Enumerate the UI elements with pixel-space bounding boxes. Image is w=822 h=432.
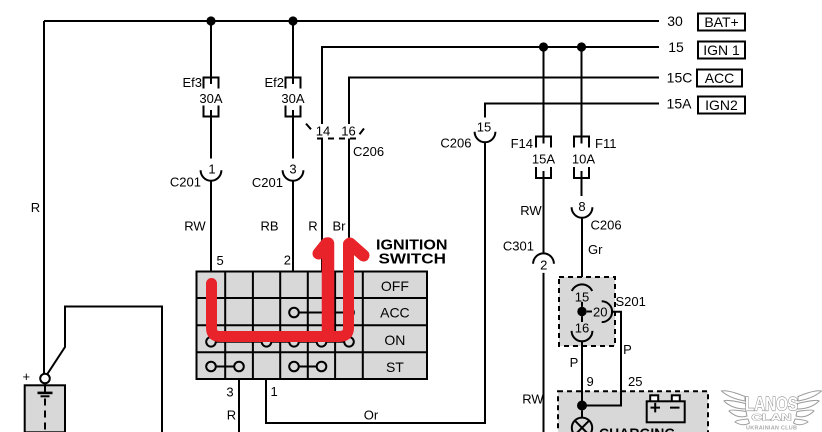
- wire F11 feed: [581, 47, 583, 144]
- svg-text:20: 20: [593, 305, 607, 320]
- svg-text:30A: 30A: [281, 91, 304, 106]
- contact ON col5: [317, 337, 327, 347]
- contact line ST row col1-col2: [211, 366, 239, 368]
- wire pin16 down to charging node (P): [581, 342, 583, 406]
- red arrow shaft 1: [322, 244, 335, 335]
- svg-text:15: 15: [668, 39, 684, 55]
- svg-text:15C: 15C: [667, 70, 693, 86]
- svg-text:RW: RW: [522, 392, 544, 407]
- svg-text:30A: 30A: [199, 91, 222, 106]
- wire switch pin 3 (R) down: [238, 380, 240, 432]
- contact ON col6: [344, 337, 354, 347]
- svg-text:5: 5: [217, 253, 224, 268]
- wire node to pin16: [581, 316, 583, 322]
- node S201 junction: [577, 307, 586, 316]
- wire C201-3 to switch pin 2 (RB): [292, 181, 294, 271]
- wire bus 15C ACC: [349, 78, 659, 125]
- fuse Ef2 30A: [286, 78, 301, 89]
- svg-text:IGN 1: IGN 1: [703, 42, 740, 58]
- svg-text:ACC: ACC: [380, 305, 410, 321]
- connector S201 pin 20: [587, 311, 592, 313]
- contact ACC col6: [344, 308, 354, 318]
- svg-text:BAT+: BAT+: [704, 14, 738, 30]
- svg-text:Gr: Gr: [588, 242, 603, 257]
- svg-text:2: 2: [284, 253, 291, 268]
- svg-text:15: 15: [477, 120, 491, 135]
- switch diagonal wire to alternator: [47, 307, 162, 432]
- svg-text:RB: RB: [260, 219, 278, 234]
- wire Ef3 feed: [210, 21, 212, 84]
- wire bus 15 IGN1: [322, 47, 659, 124]
- wire C206-15 down, Or wire to switch pin 1: [266, 143, 485, 423]
- svg-text:ST: ST: [386, 359, 404, 375]
- svg-text:+: +: [23, 369, 31, 384]
- connector C206 pins 14 16: [306, 124, 311, 130]
- red arrow head 1 barb: [319, 244, 327, 254]
- svg-text:1: 1: [208, 162, 215, 177]
- contact line ST row col4-col5: [294, 366, 322, 368]
- terminal box IGN2: [698, 97, 745, 114]
- wire Gr to S201: [581, 218, 583, 284]
- svg-text:Ef2: Ef2: [264, 75, 284, 90]
- wire C301-2 down: [543, 273, 545, 432]
- contact line ON row: [211, 341, 349, 343]
- svg-text:CLAN: CLAN: [752, 413, 792, 423]
- svg-text:ACC: ACC: [705, 70, 735, 86]
- wire R main left (battery feed): [43, 21, 45, 374]
- svg-text:C206: C206: [591, 218, 622, 233]
- wire Ef2 feed: [292, 21, 294, 84]
- svg-text:F11: F11: [595, 136, 616, 151]
- svg-text:R: R: [227, 408, 236, 423]
- svg-text:14: 14: [316, 124, 330, 139]
- wire C206-16 to switch (Br): [348, 139, 350, 272]
- contact ON col1: [206, 337, 216, 347]
- svg-text:C206: C206: [353, 144, 384, 159]
- wire C201-1 to switch pin 5 (RW): [210, 181, 212, 271]
- wire pin15 to node: [581, 302, 583, 307]
- wire fuse Ef3 to C201: [210, 110, 212, 159]
- svg-text:1: 1: [271, 384, 278, 399]
- svg-text:C206: C206: [440, 136, 471, 151]
- contact ST col5: [317, 362, 327, 372]
- svg-text:9: 9: [587, 374, 594, 389]
- contact ST col1: [206, 362, 216, 372]
- node junction F11 on bus 15: [577, 42, 586, 51]
- wire F14 feed: [543, 47, 545, 144]
- wire F11 to C206-8: [581, 171, 583, 196]
- battery terminal circle: [40, 374, 50, 384]
- svg-text:15A: 15A: [667, 96, 693, 112]
- fuse Ef3 30A: [204, 78, 219, 89]
- contact ACC col4: [289, 308, 299, 318]
- fuse F11 10A: [574, 137, 589, 148]
- contact ST col2: [234, 362, 244, 372]
- svg-text:15A: 15A: [532, 152, 555, 167]
- watermark logo Lanos Clan: [722, 391, 822, 425]
- wire bus 15A IGN2: [485, 104, 659, 118]
- svg-text:S201: S201: [616, 294, 646, 309]
- warning lamp: [581, 411, 583, 419]
- svg-text:OFF: OFF: [381, 278, 409, 294]
- terminal box BAT+: [698, 14, 745, 31]
- wire fuse Ef2 to C201: [292, 110, 294, 159]
- svg-text:16: 16: [341, 124, 355, 139]
- svg-text:CHARGING: CHARGING: [599, 425, 675, 432]
- wire F14 to C301: [543, 171, 545, 253]
- relay box S201: [559, 277, 615, 346]
- svg-text:C201: C201: [170, 175, 201, 190]
- svg-text:P: P: [623, 342, 632, 357]
- svg-text:Ef3: Ef3: [182, 75, 202, 90]
- svg-text:UKRAINIAN CLUB: UKRAINIAN CLUB: [746, 426, 797, 432]
- contact ON col3: [262, 337, 272, 347]
- switch contact table: [197, 272, 428, 380]
- svg-text:30: 30: [667, 13, 683, 29]
- svg-text:16: 16: [575, 321, 589, 336]
- node charging junction: [577, 401, 587, 411]
- battery icon: [650, 395, 658, 402]
- battery box: [25, 385, 65, 432]
- battery plates: [44, 383, 46, 393]
- red marked current path: [212, 244, 349, 337]
- charging system box: [558, 391, 708, 432]
- svg-text:R: R: [31, 200, 40, 215]
- contact ON col4: [289, 337, 299, 347]
- svg-text:F14: F14: [511, 136, 533, 151]
- node junction Ef2 on bus 30: [288, 16, 297, 25]
- fuse F14 15A: [536, 137, 551, 148]
- svg-text:RW: RW: [520, 203, 542, 218]
- svg-text:P: P: [570, 355, 579, 370]
- svg-text:RW: RW: [184, 219, 206, 234]
- svg-text:2: 2: [540, 258, 547, 273]
- svg-text:ON: ON: [384, 332, 405, 348]
- contact line ACC row: [294, 312, 349, 314]
- svg-text:Br: Br: [333, 219, 347, 234]
- red arrow head 2 barb: [350, 244, 364, 256]
- wire bus 30 BAT+: [44, 20, 659, 22]
- svg-text:SWITCH: SWITCH: [379, 251, 447, 268]
- terminal box IGN 1: [698, 42, 745, 59]
- wire pin 20 to terminal 25: [582, 312, 621, 406]
- terminal box ACC: [697, 70, 742, 87]
- svg-text:25: 25: [628, 374, 642, 389]
- wire C206-14 to switch (R): [321, 139, 323, 272]
- connector S201 pin 15: [572, 284, 592, 291]
- svg-text:Or: Or: [364, 408, 379, 423]
- svg-text:3: 3: [289, 162, 296, 177]
- svg-text:R: R: [308, 219, 317, 234]
- svg-text:IGN2: IGN2: [705, 97, 738, 113]
- contact ST col4: [289, 362, 299, 372]
- svg-text:C301: C301: [503, 239, 534, 254]
- svg-text:C201: C201: [252, 175, 283, 190]
- node junction F14 on bus 15: [539, 42, 548, 51]
- svg-text:10A: 10A: [572, 152, 595, 167]
- connector C301 pin 2: [533, 253, 554, 263]
- node junction Ef3 on bus 30: [206, 16, 215, 25]
- svg-text:8: 8: [578, 199, 585, 214]
- svg-text:3: 3: [226, 385, 233, 400]
